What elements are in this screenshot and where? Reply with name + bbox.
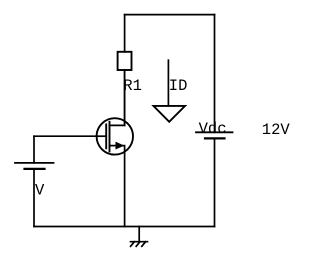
wire left vertical upper bbox=[33, 136, 35, 163]
wire bottom horizontal bbox=[34, 226, 215, 228]
wire left vertical lower bbox=[33, 169, 35, 227]
dc source Vdc bbox=[196, 120, 233, 138]
MOSFET M1 bbox=[97, 70, 133, 227]
svg-text:12V: 12V bbox=[262, 121, 291, 139]
ground bbox=[131, 227, 148, 247]
wire resistor to MOSFET drain bbox=[124, 70, 126, 125]
battery V bbox=[15, 163, 54, 200]
wire drain vertical (top to resistor) bbox=[124, 15, 126, 52]
wire gate horizontal bbox=[34, 135, 97, 137]
svg-text:V: V bbox=[35, 182, 45, 200]
wire top horizontal bbox=[125, 14, 215, 16]
svg-text:ID: ID bbox=[169, 77, 188, 95]
svg-text:Vdc: Vdc bbox=[199, 120, 227, 138]
current arrow ID bbox=[154, 60, 188, 122]
svg-text:R1: R1 bbox=[123, 77, 142, 95]
wire right vertical lower bbox=[214, 138, 216, 226]
resistor R1 bbox=[118, 52, 142, 95]
wire right vertical upper bbox=[214, 15, 216, 133]
